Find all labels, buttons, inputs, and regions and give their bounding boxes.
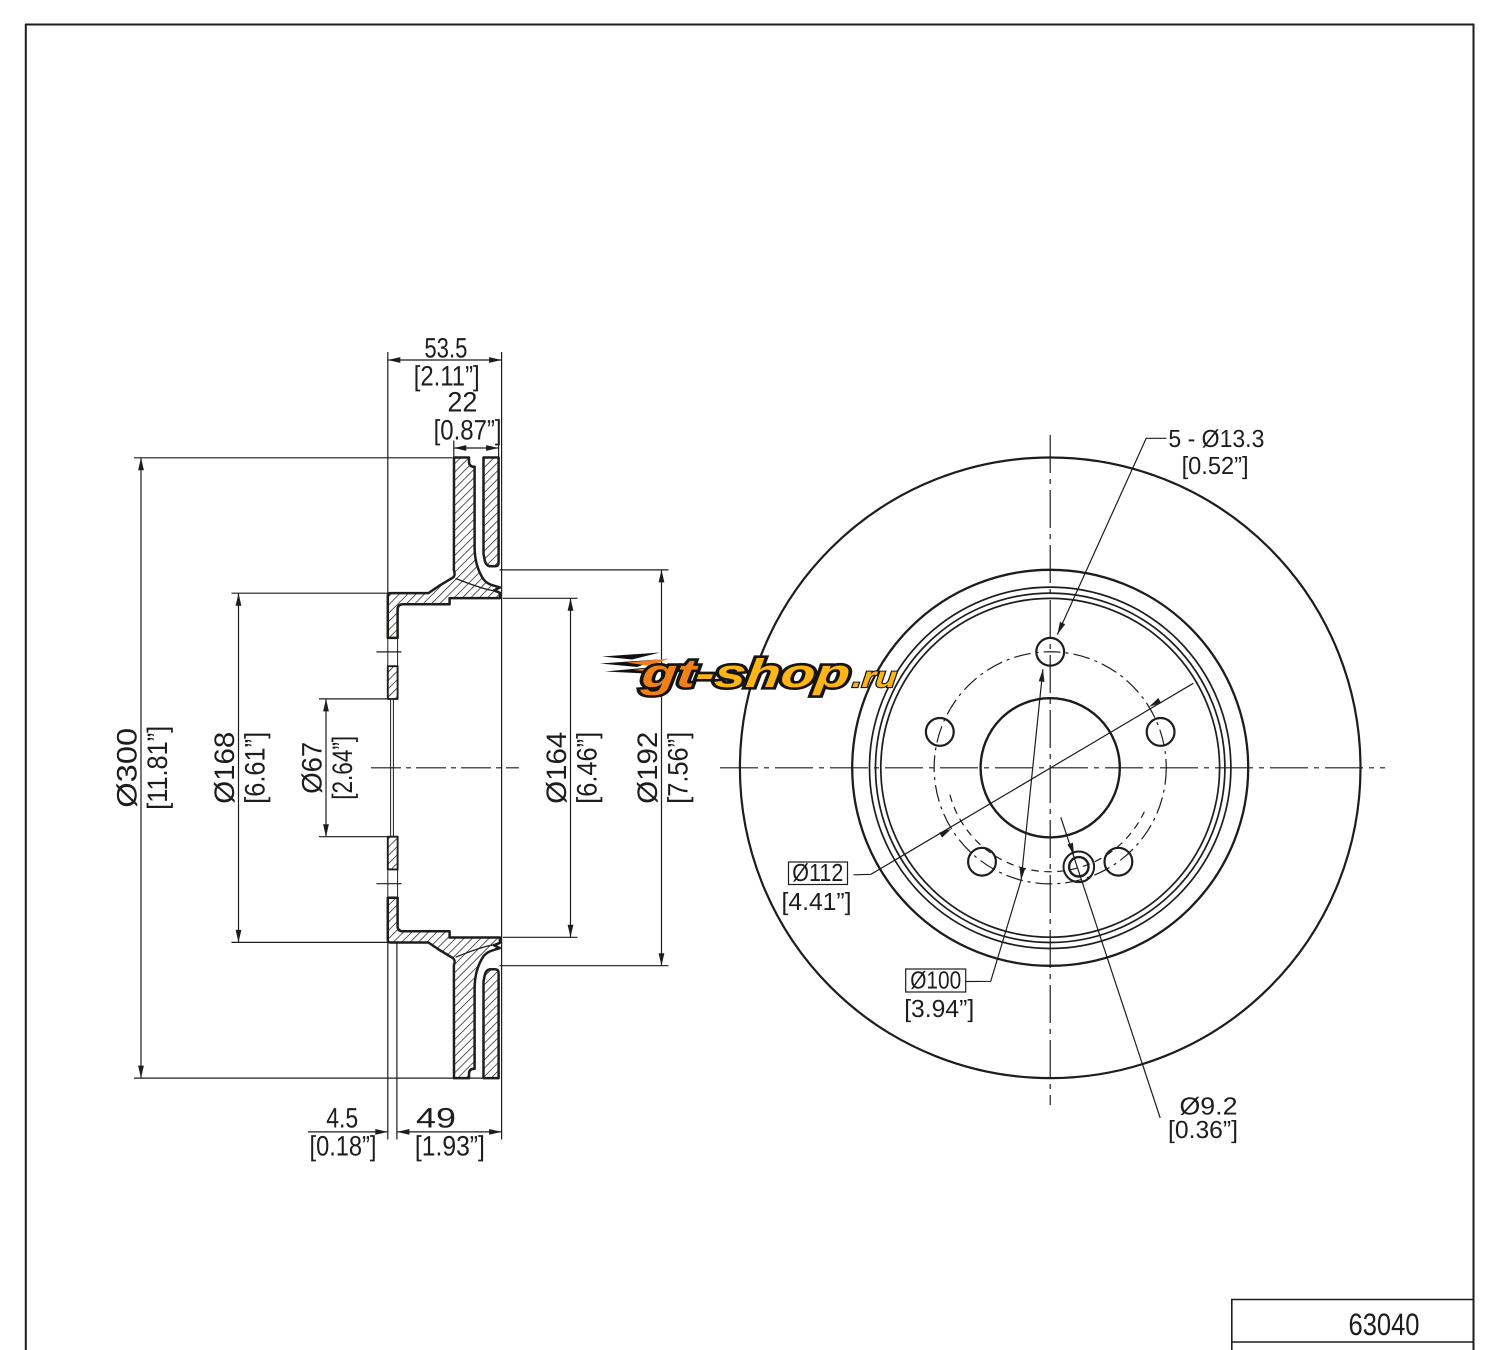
svg-text:[0.87”]: [0.87”]	[434, 414, 502, 446]
svg-text:[0.36”]: [0.36”]	[1168, 1117, 1238, 1144]
svg-text:gt-shop: gt-shop	[638, 652, 852, 696]
svg-text:[0.18”]: [0.18”]	[310, 1130, 377, 1162]
svg-text:5 - Ø13.3: 5 - Ø13.3	[1168, 426, 1264, 453]
svg-text:[7.56”]: [7.56”]	[662, 732, 694, 804]
svg-text:63040: 63040	[1349, 1307, 1420, 1342]
svg-text:Ø164: Ø164	[540, 732, 572, 804]
svg-text:[3.94”]: [3.94”]	[904, 996, 974, 1023]
svg-text:Ø168: Ø168	[208, 732, 240, 804]
svg-text:Ø67: Ø67	[296, 742, 328, 794]
svg-text:Ø300: Ø300	[111, 728, 143, 808]
svg-text:[11.81”]: [11.81”]	[141, 726, 173, 810]
svg-text:[4.41”]: [4.41”]	[782, 889, 852, 916]
svg-text:Ø192: Ø192	[631, 732, 663, 804]
svg-text:[6.46”]: [6.46”]	[571, 732, 603, 804]
svg-text:[6.61”]: [6.61”]	[239, 732, 271, 804]
svg-text:[2.64”]: [2.64”]	[326, 736, 358, 800]
svg-text:.ru: .ru	[851, 662, 899, 694]
svg-text:Ø100: Ø100	[910, 968, 961, 995]
svg-text:Ø112: Ø112	[792, 860, 843, 887]
svg-text:[1.93”]: [1.93”]	[415, 1130, 485, 1162]
svg-text:[0.52”]: [0.52”]	[1182, 453, 1249, 480]
